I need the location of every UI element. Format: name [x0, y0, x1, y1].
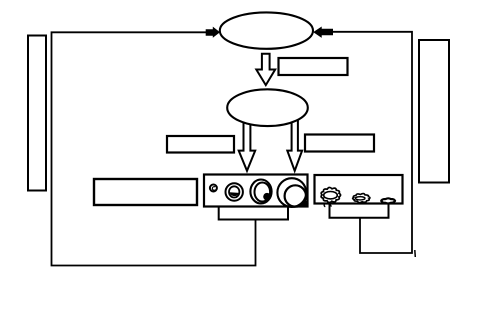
- cloud box: [315, 175, 403, 204]
- device pedestal: [219, 208, 288, 220]
- knob 3 outer ellipse: [250, 180, 271, 204]
- cloud 1 feet: [324, 204, 332, 207]
- knob 1 (small ring): [210, 185, 217, 192]
- knob 4 dot: [302, 201, 309, 208]
- left tall narrow rectangle: [28, 36, 46, 191]
- left middle label rectangle: [167, 136, 234, 153]
- knob 3 dot: [263, 193, 271, 201]
- tick at wire corner: [414, 250, 417, 257]
- bottom left label rectangle: [94, 179, 197, 205]
- knob 2 inner circle: [229, 186, 239, 197]
- feedback wire right (top run, right drop, bottom run, rise to cloud pedestal): [333, 32, 412, 253]
- knob 2 dark segment: [230, 192, 239, 196]
- outer feedback box (left/bottom/right-up path): [52, 32, 256, 265]
- right middle label rectangle: [305, 135, 374, 152]
- upper middle label rectangle: [279, 58, 348, 75]
- tall right rectangle: [419, 40, 449, 183]
- cloud pedestal: [330, 204, 389, 218]
- knob 3 inner ellipse: [254, 183, 270, 202]
- hollow block arrow down #2 (left, under 2nd ellipse): [239, 115, 256, 171]
- solid arrow into top ellipse (left): [206, 27, 220, 38]
- knob 1 inner mark: [212, 187, 215, 191]
- knob 2 outer circle: [226, 183, 243, 200]
- hollow block arrow down #1: [256, 54, 275, 85]
- device panel box: [204, 175, 308, 207]
- knob 4 inner circle: [285, 185, 306, 206]
- knob 4 outer circle: [277, 178, 306, 207]
- cloud 1 inner ellipse: [324, 192, 338, 199]
- cloud 2 inner ellipse: [355, 197, 365, 200]
- hollow block arrow down #3 (right, under 2nd ellipse): [287, 112, 302, 171]
- top ellipse: [220, 12, 313, 48]
- cloud 1 scalloped: [321, 187, 340, 202]
- cloud 3 scalloped: [381, 198, 395, 203]
- cloud 2 scalloped: [353, 194, 370, 203]
- second ellipse: [227, 89, 308, 126]
- solid arrow into top ellipse (right): [313, 26, 333, 37]
